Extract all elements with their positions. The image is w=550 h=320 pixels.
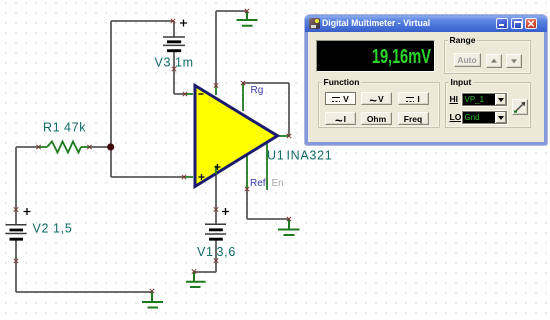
svg-text:U1: U1	[267, 149, 284, 163]
svg-text:Rg: Rg	[251, 85, 264, 96]
svg-text:1,5: 1,5	[53, 222, 72, 236]
svg-text:3,6: 3,6	[217, 245, 236, 259]
svg-text:47k: 47k	[64, 121, 86, 135]
svg-text:INA321: INA321	[287, 149, 333, 163]
svg-text:V1: V1	[197, 245, 214, 259]
svg-text:1m: 1m	[175, 56, 194, 70]
svg-text:Ref: Ref	[250, 178, 266, 189]
svg-text:V2: V2	[33, 222, 50, 236]
svg-text:V3: V3	[155, 56, 172, 70]
svg-text:En: En	[272, 178, 284, 189]
svg-text:R1: R1	[43, 121, 60, 135]
